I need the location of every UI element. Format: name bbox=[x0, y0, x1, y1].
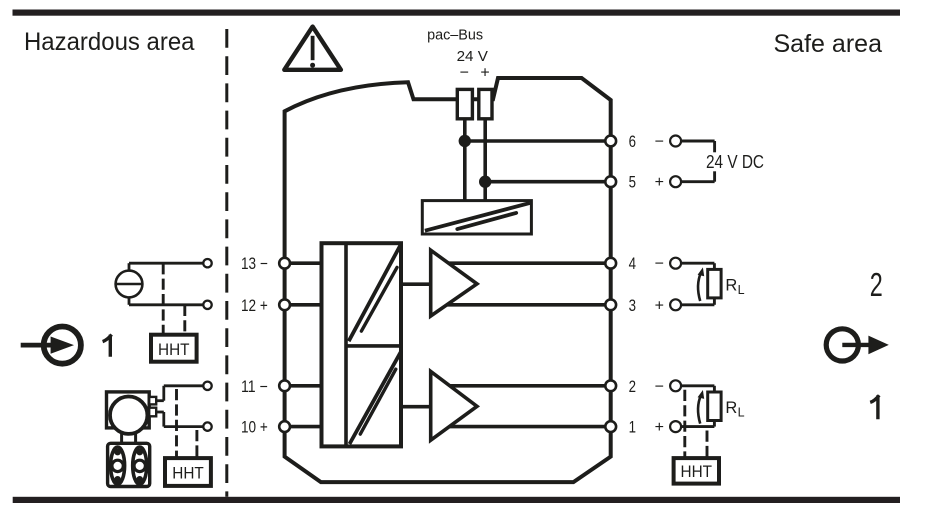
svg-text:L: L bbox=[738, 283, 745, 297]
output connector circle 2 minus bbox=[670, 380, 681, 391]
output connector circle 3 plus bbox=[670, 299, 681, 310]
wires transmitter S2 to connectors bbox=[156, 386, 207, 427]
HHT box upper left bbox=[151, 335, 197, 362]
load resistor RL1 bbox=[708, 269, 721, 298]
svg-text:+: + bbox=[655, 297, 664, 314]
wires sensor S1 to connectors bbox=[129, 263, 208, 305]
terminal circle 1 bbox=[605, 421, 616, 432]
supply connector circle plus bbox=[670, 176, 681, 187]
connector circle to terminal 11 bbox=[203, 382, 211, 390]
terminal circle 5 bbox=[605, 176, 616, 187]
transmitter sensor S1 (circle with bar) bbox=[116, 271, 143, 298]
wire isolator to amplifier A2 bbox=[401, 405, 431, 409]
svg-text:24 V: 24 V bbox=[457, 48, 489, 65]
wire terminal 11 to isolator bbox=[285, 384, 322, 388]
svg-text:3: 3 bbox=[629, 297, 636, 315]
wire amplifier A2 to terminal 1 bbox=[440, 425, 611, 429]
terminal circle 4 bbox=[605, 258, 616, 269]
terminal circle 6 bbox=[605, 136, 616, 147]
svg-text:Safe area: Safe area bbox=[774, 30, 883, 58]
label channel 1 right bbox=[870, 395, 879, 419]
svg-text:−: − bbox=[655, 378, 664, 395]
svg-text:+: + bbox=[655, 419, 664, 436]
svg-text:13 −: 13 − bbox=[241, 255, 268, 273]
fuse F1 (pac-Bus minus) bbox=[457, 89, 472, 118]
svg-text:+: + bbox=[480, 65, 489, 82]
adjustment arrow RL1 bbox=[698, 267, 705, 301]
svg-text:11 −: 11 − bbox=[241, 378, 268, 396]
wire fuse F1 to power supply bbox=[463, 119, 467, 201]
svg-text:L: L bbox=[738, 405, 745, 419]
svg-text:−: − bbox=[460, 65, 469, 82]
svg-text:HHT: HHT bbox=[681, 462, 713, 481]
bottom border bar bbox=[13, 497, 900, 503]
device outline bbox=[285, 78, 611, 482]
svg-text:6: 6 bbox=[629, 133, 636, 151]
wire terminal 10 to isolator bbox=[285, 425, 322, 429]
terminal circle 2 bbox=[605, 380, 616, 391]
load resistor RL2 wiring bbox=[681, 386, 715, 427]
adjustment arrow RL2 bbox=[698, 390, 705, 424]
terminal circle 13 bbox=[279, 258, 290, 269]
svg-text:10 +: 10 + bbox=[241, 419, 268, 437]
junction node on plus rail bbox=[479, 176, 491, 188]
supply connector circle minus bbox=[670, 136, 681, 147]
dashed HHT leads lower left bbox=[177, 389, 197, 458]
wire node to terminal 6 bbox=[465, 139, 611, 143]
wire amplifier A2 to terminal 2 bbox=[440, 384, 611, 388]
hazardous/safe area separator dashed line bbox=[225, 29, 228, 497]
svg-text:+: + bbox=[655, 174, 664, 191]
amplifier A2 bbox=[431, 371, 477, 440]
svg-text:12 +: 12 + bbox=[241, 297, 268, 315]
wire terminal 12 to isolator bbox=[285, 303, 322, 307]
wire amplifier A1 to terminal 4 bbox=[440, 261, 611, 265]
svg-text:HHT: HHT bbox=[172, 464, 204, 483]
connector circle to terminal 13 bbox=[203, 259, 211, 267]
terminal circle 11 bbox=[279, 380, 290, 391]
wire isolator to amplifier A1 bbox=[401, 282, 431, 286]
svg-text:5: 5 bbox=[629, 174, 636, 192]
svg-text:R: R bbox=[725, 399, 737, 417]
svg-text:−: − bbox=[655, 134, 664, 151]
power supply block PS1 bbox=[422, 201, 531, 234]
isolation transformer block T1/T2 bbox=[322, 243, 402, 446]
svg-text:pac–Bus: pac–Bus bbox=[427, 26, 483, 43]
terminal circle 3 bbox=[605, 299, 616, 310]
svg-text:Hazardous area: Hazardous area bbox=[24, 28, 195, 56]
fuse F2 (pac-Bus plus) bbox=[479, 89, 492, 118]
24 V DC supply wiring bbox=[681, 141, 715, 182]
svg-text:−: − bbox=[655, 256, 664, 273]
HHT box lower left bbox=[165, 458, 211, 486]
output connector circle 4 minus bbox=[670, 258, 681, 269]
dashed HHT leads right bbox=[685, 390, 707, 458]
wire amplifier A1 to terminal 3 bbox=[440, 303, 611, 307]
output direction symbol bbox=[826, 329, 889, 361]
dashed HHT leads upper left bbox=[163, 263, 185, 335]
svg-text:HHT: HHT bbox=[158, 340, 190, 359]
wire fuse F2 to power supply bbox=[483, 119, 487, 201]
output connector circle 1 plus bbox=[670, 421, 681, 432]
svg-text:1: 1 bbox=[629, 419, 636, 437]
connector circle to terminal 10 bbox=[203, 422, 211, 430]
connector circle to terminal 12 bbox=[203, 301, 211, 309]
input direction symbol bbox=[21, 327, 81, 364]
svg-text:2: 2 bbox=[629, 378, 636, 396]
load resistor RL2 bbox=[708, 392, 721, 421]
terminal circle 10 bbox=[279, 421, 290, 432]
pressure transmitter S2 bbox=[107, 392, 157, 487]
svg-text:4: 4 bbox=[629, 255, 636, 273]
amplifier A1 bbox=[431, 250, 477, 316]
wire terminal 13 to isolator bbox=[285, 261, 322, 265]
terminal circle 12 bbox=[279, 299, 290, 310]
svg-text:24 V DC: 24 V DC bbox=[706, 152, 764, 172]
top border bar bbox=[13, 10, 901, 16]
svg-text:2: 2 bbox=[870, 266, 883, 303]
warning triangle W1 bbox=[284, 27, 341, 70]
load resistor RL1 wiring bbox=[681, 263, 715, 305]
svg-text:R: R bbox=[725, 277, 737, 295]
junction node on minus rail bbox=[459, 135, 471, 147]
HHT box right bbox=[674, 458, 719, 484]
label channel 1 left bbox=[103, 335, 112, 357]
wire node to terminal 5 bbox=[485, 180, 611, 184]
